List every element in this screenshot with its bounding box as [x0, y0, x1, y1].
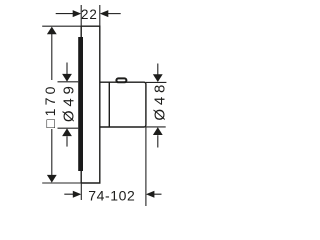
knob (handle, side view with rounded right corners)	[100, 82, 146, 127]
arrow 49 down	[62, 74, 72, 82]
arrow 22 right	[100, 10, 109, 17]
svg-text:74-102: 74-102	[88, 187, 135, 203]
safety button tab on knob top	[116, 78, 126, 82]
knob base flange line	[108, 82, 110, 127]
svg-text:Ø48: Ø48	[152, 81, 169, 121]
dim 74-102: extension left	[80, 183, 82, 200]
arrow 48 down	[153, 74, 163, 82]
arrow 170 down	[47, 175, 57, 183]
dim 49: tail bottom	[66, 136, 68, 146]
dim 170: shaft upper	[51, 33, 53, 81]
arrow 170 up	[47, 27, 57, 35]
dim 48: extension top	[146, 81, 166, 83]
dim 49: extension bottom	[58, 127, 79, 129]
svg-text:□170: □170	[42, 83, 58, 128]
dim 22: right tail	[107, 13, 121, 15]
dim 22: extension line left	[80, 5, 82, 26]
dim 48: tail top	[157, 64, 159, 76]
dim 170: top extension line	[42, 25, 81, 27]
dim 48: extension bottom	[146, 126, 166, 128]
escutcheon plate (side view rectangle)	[81, 26, 100, 183]
dim 170: shaft lower	[51, 129, 53, 177]
arrow 49 up	[62, 128, 72, 136]
arrow 22 left	[73, 10, 82, 17]
arrow 74-102 left	[73, 191, 82, 198]
seal collar bar behind plate	[78, 37, 83, 171]
dim 170: bottom extension line	[42, 182, 81, 184]
arrow 48 up	[153, 127, 163, 135]
svg-text:22: 22	[81, 7, 98, 22]
dim 48: tail bottom	[157, 135, 159, 147]
dim 74-102: dimension tails	[64, 193, 161, 195]
dim 49: tail top	[66, 63, 68, 76]
svg-text:Ø49: Ø49	[61, 82, 78, 122]
dim 49: extension top	[58, 81, 79, 83]
arrow 74-102 right	[146, 191, 155, 198]
dim 74-102: extension right	[145, 127, 147, 206]
dim 22: left tail	[56, 13, 74, 15]
dim 22: extension line right	[99, 5, 101, 26]
